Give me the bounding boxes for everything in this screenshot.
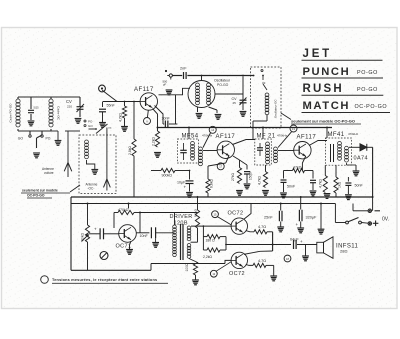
svg-text:GO: GO [18,137,24,141]
svg-text:oc: oc [108,126,112,130]
svg-text:470kHz: 470kHz [277,134,288,138]
svg-text:2,2kΩ: 2,2kΩ [203,255,212,259]
svg-text:RUSH: RUSH [303,83,344,95]
svg-text:GO: GO [88,124,93,128]
svg-text:150pF: 150pF [249,171,253,180]
svg-text:Cadre-OC: Cadre-OC [57,106,61,121]
svg-text:voiture: voiture [44,171,54,175]
svg-text:0A74: 0A74 [354,156,368,162]
svg-text:4,7Ω: 4,7Ω [258,259,266,263]
svg-text:MF 21: MF 21 [257,134,276,140]
svg-text:PO: PO [88,120,93,124]
svg-text:JET: JET [303,48,333,60]
svg-text:AF117: AF117 [216,134,236,140]
svg-text:25: 25 [233,101,237,105]
svg-text:100Ω: 100Ω [185,263,189,272]
svg-text:seulement sur modèle OC-PO-GO: seulement sur modèle OC-PO-GO [291,119,355,124]
svg-text:2nF: 2nF [180,67,187,71]
svg-text:seulement sur modèle: seulement sur modèle [22,189,58,193]
svg-text:+: + [184,185,187,190]
svg-text:4,7kΩ: 4,7kΩ [258,176,262,185]
svg-text:30kΩ: 30kΩ [81,233,85,241]
svg-text:120B: 120B [174,221,188,227]
svg-text:900kΩ: 900kΩ [162,174,173,178]
svg-text:MATCH: MATCH [303,100,351,112]
svg-text:Oscillateur: Oscillateur [214,79,231,83]
svg-text:OC72: OC72 [228,211,244,217]
svg-text:2,8kΩ: 2,8kΩ [128,146,132,155]
svg-text:4,7Ω: 4,7Ω [258,225,266,229]
svg-text:OC-PO-GO: OC-PO-GO [27,194,45,198]
svg-text:V: V [146,119,148,123]
svg-text:PO-GO: PO-GO [357,70,378,76]
svg-text:pF: pF [163,83,167,87]
svg-text:470kHz: 470kHz [202,134,213,138]
svg-text:oc: oc [262,81,266,85]
svg-text:220: 220 [67,105,72,109]
svg-text:PO: PO [46,137,51,141]
svg-text:28Ω: 28Ω [340,249,347,254]
svg-text:0560: 0560 [210,96,212,102]
svg-text:PO-GO: PO-GO [217,83,229,87]
svg-text:MF54: MF54 [182,134,199,140]
svg-text:8,2kΩ: 8,2kΩ [194,208,198,217]
svg-text:5/25: 5/25 [34,106,40,110]
svg-text:OC-PO-GO: OC-PO-GO [355,104,388,110]
svg-text:AF117: AF117 [134,87,154,93]
svg-text:470kΩ: 470kΩ [118,208,129,212]
svg-text:64μF: 64μF [290,238,299,242]
svg-text:47kΩ: 47kΩ [293,166,302,170]
svg-text:10nF: 10nF [140,234,149,238]
svg-text:+: + [296,222,299,227]
svg-text:Oscillateur-OC-: Oscillateur-OC- [274,99,278,118]
svg-text:50nF: 50nF [355,184,364,188]
svg-text:PUNCH: PUNCH [303,66,351,78]
svg-text:-OC-: -OC- [88,186,95,190]
svg-text:4,7kΩ: 4,7kΩ [319,179,323,188]
svg-text:OC71: OC71 [116,244,132,250]
svg-text:PO-GO: PO-GO [357,87,378,93]
svg-text:25nF: 25nF [264,215,273,219]
svg-text:MF41: MF41 [328,132,345,138]
svg-text:1kΩ: 1kΩ [338,181,342,188]
svg-text:10μF: 10μF [177,181,186,185]
svg-text:2,2kΩ: 2,2kΩ [152,137,156,146]
svg-text:Cadre PO-GO: Cadre PO-GO [9,103,13,123]
svg-text:10nF: 10nF [162,117,171,121]
svg-text:+: + [94,227,97,232]
svg-text:4,7kΩ: 4,7kΩ [119,113,123,122]
svg-text:AF117: AF117 [297,135,317,141]
svg-text:6,8kΩ: 6,8kΩ [210,179,214,188]
svg-text:+: + [300,239,303,244]
svg-text:55nF: 55nF [107,104,116,108]
svg-text:470kHz: 470kHz [348,132,359,136]
svg-text:0V.: 0V. [382,217,389,223]
svg-text:50nF: 50nF [287,185,296,189]
svg-text:27kΩ: 27kΩ [231,173,235,181]
svg-text:DRIVER: DRIVER [170,214,193,220]
svg-text:Tensions mesurées, le récepteu: Tensions mesurées, le récepteur étant en… [52,278,157,282]
svg-text:OC72: OC72 [229,271,245,277]
svg-text:CV: CV [66,99,72,104]
svg-text:320μF: 320μF [306,215,318,219]
svg-text:180 Ω: 180 Ω [206,239,216,243]
